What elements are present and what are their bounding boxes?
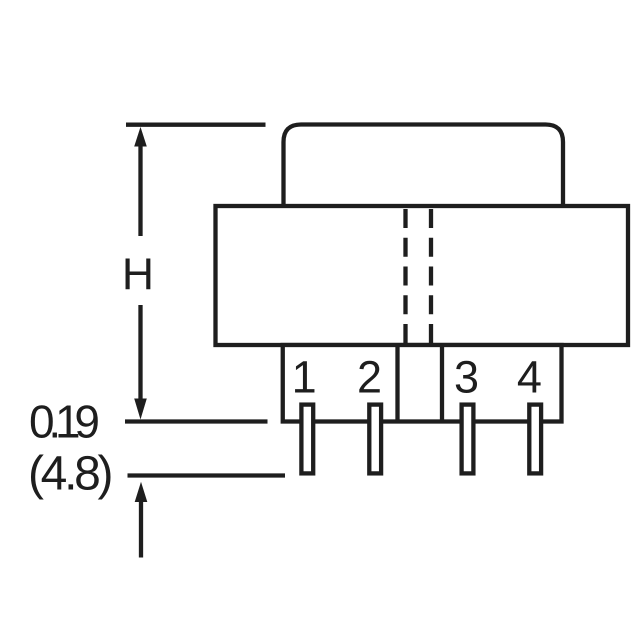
pin 4 — [529, 405, 541, 474]
svg-text:(4.8): (4.8) — [28, 448, 112, 501]
center leg line left — [395, 345, 399, 422]
pin 1 — [301, 405, 313, 474]
pin 3 — [462, 405, 474, 474]
svg-text:4: 4 — [517, 352, 542, 403]
svg-text:1: 1 — [292, 352, 317, 403]
extension line at pin tips — [128, 473, 286, 477]
H dimension upper arrow (points up) — [134, 127, 147, 147]
center leg line right — [440, 345, 444, 422]
hidden core line right (dashed) — [429, 209, 433, 343]
svg-text:0.19: 0.19 — [29, 395, 98, 447]
transformer body (core/lamination stack) — [216, 206, 629, 345]
hidden core line left (dashed) — [403, 209, 407, 343]
svg-text:H: H — [122, 250, 154, 299]
H dimension top extension line — [126, 123, 266, 127]
lower up-pointing arrow for 0.19 (4.8) dimension — [135, 482, 148, 502]
extension line at seating plane (base bottom) — [125, 419, 268, 423]
svg-text:3: 3 — [454, 352, 479, 403]
H dimension lower shaft and arrow (points down) — [138, 305, 142, 400]
bobbin base flange — [283, 345, 562, 422]
pin 2 — [369, 405, 381, 474]
transformer top cap (rounded cover) — [284, 125, 564, 207]
svg-text:2: 2 — [357, 352, 382, 403]
